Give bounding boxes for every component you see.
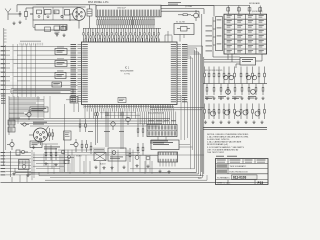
- transistor Q6: [243, 110, 260, 116]
- svg-text:AUDIO: AUDIO: [100, 163, 106, 166]
- text sheet header: [88, 1, 109, 4]
- keyboard matrix SW1-SW32: [224, 14, 267, 54]
- transistor Q7: [25, 110, 31, 120]
- svg-text:IN MICROFARAD (uF): IN MICROFARAD (uF): [207, 143, 228, 146]
- connector pins audio: [94, 148, 104, 153]
- inductor array L1: [83, 28, 161, 41]
- svg-text:VIDEO: VIDEO: [76, 156, 82, 158]
- keyboard matrix column stubs: [227, 6, 262, 15]
- IC5 regulator: [30, 141, 42, 148]
- svg-text:SHEET 1 OF 1: SHEET 1 OF 1: [217, 183, 231, 185]
- capacitor C8: [45, 26, 67, 37]
- wire right corner bends: [190, 160, 192, 169]
- text IC6 label: [150, 141, 168, 144]
- resistor R40: [81, 140, 83, 152]
- svg-text:CN1 50-P: CN1 50-P: [117, 8, 126, 10]
- svg-text:Sch: Sch: [198, 178, 201, 180]
- IC U9 sound: [158, 152, 178, 167]
- IC U5: [55, 71, 66, 79]
- resistor R50: [49, 128, 54, 141]
- svg-text:1. ALL RESISTANCE VALUES ARE I: 1. ALL RESISTANCE VALUES ARE IN OHM.: [207, 136, 249, 139]
- ground row 1: [205, 97, 264, 100]
- text expansion strip: [11, 89, 73, 94]
- transistor Q5: [211, 110, 241, 116]
- resistor R42: [90, 142, 92, 154]
- matrix row header: [216, 17, 223, 51]
- inductor beads audio: [95, 113, 124, 116]
- wire bottom band: [33, 145, 204, 156]
- ground G2: [12, 22, 15, 25]
- svg-text:LIST. VOLTAGES MEASURED AT: LIST. VOLTAGES MEASURED AT: [207, 148, 239, 151]
- wire column x64: [64, 104, 66, 172]
- svg-text:THE TEST POINT.: THE TEST POINT.: [207, 152, 225, 154]
- wire ram links: [150, 108, 204, 110]
- antenna ANT1: [5, 9, 11, 15]
- IC U3: [55, 47, 67, 55]
- video box U10: [108, 148, 126, 161]
- text RF label: [36, 3, 50, 6]
- transistor Q2: [224, 75, 234, 79]
- text audio label: [76, 156, 106, 166]
- transistor Q4: [226, 89, 256, 94]
- wire bottom verticals: [48, 155, 150, 174]
- transistor Q1: [185, 5, 198, 21]
- shield box: [33, 20, 67, 30]
- svg-text:(KEYBOARD): (KEYBOARD): [252, 10, 263, 13]
- svg-text:SCHEMATIC: SCHEMATIC: [217, 176, 230, 179]
- ground G1: [18, 21, 21, 24]
- capacitor C1: [14, 11, 21, 17]
- wire ram right links: [181, 95, 188, 140]
- text RAM label: [148, 112, 176, 122]
- wire IC bottom fanout right: [138, 112, 176, 125]
- IC U6: [52, 82, 62, 87]
- wire RF input: [8, 8, 33, 20]
- svg-text:X1 10.738: X1 10.738: [176, 22, 185, 24]
- capacitor C30: [66, 97, 79, 113]
- wire lower-left mesh: [9, 96, 40, 135]
- resistor R47: [137, 124, 144, 137]
- crystal X1: [174, 22, 194, 35]
- resistor R41: [86, 140, 88, 152]
- ground G5: [135, 164, 170, 173]
- svg-text:THIS SCHEMATIC: THIS SCHEMATIC: [230, 165, 247, 168]
- wire bottom drops: [64, 150, 152, 174]
- wire IC right bus: [187, 46, 203, 177]
- wire left mesh: [1, 28, 78, 166]
- svg-text:MSX MODEL 1-PG: MSX MODEL 1-PG: [88, 1, 109, 4]
- wire bus right2: [203, 128, 267, 130]
- resistor R5: [178, 14, 191, 16]
- cartridge connector J2: [96, 5, 161, 28]
- text bus labels: [20, 41, 43, 46]
- capacitor C12: [16, 150, 20, 155]
- resistor R45: [137, 143, 139, 155]
- transistor Q8: [70, 139, 78, 152]
- diode D1: [21, 123, 29, 126]
- wire fanout bends: [88, 113, 140, 132]
- transistor Q3: [246, 75, 256, 79]
- IC U2: [204, 54, 256, 65]
- wire corner returns: [130, 168, 195, 170]
- svg-text:3. FOR PARTS MARKED * SEE PART: 3. FOR PARTS MARKED * SEE PARTS: [207, 146, 245, 149]
- transformer T1: [94, 153, 106, 161]
- connector P2 power: [1, 151, 32, 177]
- capacitor C2: [87, 5, 92, 29]
- ground G6: [12, 172, 29, 177]
- wire bus right1: [203, 83, 267, 85]
- transistor Q10: [7, 139, 14, 150]
- svg-text:R21 R22 R23 R24 R25: R21 R22 R23 R24 R25: [205, 70, 222, 72]
- text 5V label: [168, 2, 181, 5]
- IC U7 RAM: [147, 125, 177, 137]
- IC U11: [19, 160, 30, 170]
- transistor Q9: [135, 156, 150, 160]
- text power labels: [1, 96, 6, 104]
- svg-text:ELECTRONICS DIV.: ELECTRONICS DIV.: [230, 172, 249, 174]
- text IC5 label: [44, 147, 60, 150]
- resistor R46: [142, 143, 144, 155]
- wire lower-left grid: [9, 96, 50, 120]
- resistor network tier3: [204, 104, 266, 120]
- text tier2 labels: [205, 96, 256, 99]
- svg-text:MSX-ENGINE: MSX-ENGINE: [120, 71, 134, 73]
- wire video lines: [161, 9, 204, 18]
- IC U4: [55, 59, 67, 67]
- resistor network tier1: [204, 67, 266, 84]
- svg-text:T7775: T7775: [124, 74, 131, 76]
- resistor R1: [25, 8, 28, 20]
- capacitor C9: [8, 120, 15, 125]
- IC U8: [151, 137, 179, 150]
- svg-text:KEYBOARD: KEYBOARD: [249, 2, 261, 5]
- title block: [216, 156, 269, 185]
- transistor Q11: [111, 117, 130, 130]
- svg-text:611-0103: 611-0103: [233, 176, 247, 180]
- text left of title block: [198, 174, 204, 180]
- A/V connector J3: [29, 127, 51, 146]
- capacitor C32: [118, 98, 126, 103]
- capacitor cluster C20: [44, 144, 70, 166]
- RF modulator M1: [30, 7, 77, 20]
- wire +5V rail: [17, 5, 214, 12]
- wire bottom bus: [1, 168, 269, 182]
- svg-text:IC 1: IC 1: [125, 68, 130, 70]
- wire IC bottom fanout left: [85, 112, 135, 119]
- wire audio columns: [96, 112, 124, 150]
- text notes: [207, 134, 249, 154]
- svg-text:Q1 2SA: Q1 2SA: [185, 5, 192, 8]
- capacitor C15: [64, 131, 72, 140]
- op-amp U1 main IC: [71, 39, 188, 112]
- wire right bus vertical: [202, 14, 204, 174]
- resistor network tier2: [206, 84, 264, 95]
- wire keyboard harness: [161, 6, 250, 17]
- svg-text:And: And: [200, 174, 204, 177]
- wire crystal to IC: [165, 31, 184, 42]
- text matrix row names: [206, 26, 213, 52]
- RF connector J1: [70, 7, 86, 29]
- wire power lines: [33, 144, 74, 172]
- wire data bus: [9, 119, 170, 127]
- ground G4: [94, 166, 125, 170]
- wire P2 verticals: [12, 150, 34, 182]
- capacitor C10: [8, 127, 15, 132]
- resistor R43: [129, 148, 131, 162]
- resistor R52: [79, 119, 86, 132]
- ground row 2: [204, 121, 264, 124]
- svg-text:2. ALL CAPACITANCE VALUES ARE: 2. ALL CAPACITANCE VALUES ARE: [207, 141, 242, 144]
- ground G3: [32, 146, 35, 149]
- wire U2 out: [236, 54, 262, 68]
- wire matrix rows: [213, 17, 240, 57]
- text keyboard: [249, 2, 263, 13]
- svg-text:P23: P23: [258, 181, 264, 185]
- diode D2: [20, 150, 29, 153]
- text AV label: [33, 122, 47, 125]
- resistor array RA1: [97, 17, 155, 29]
- text regulator label: [30, 107, 48, 112]
